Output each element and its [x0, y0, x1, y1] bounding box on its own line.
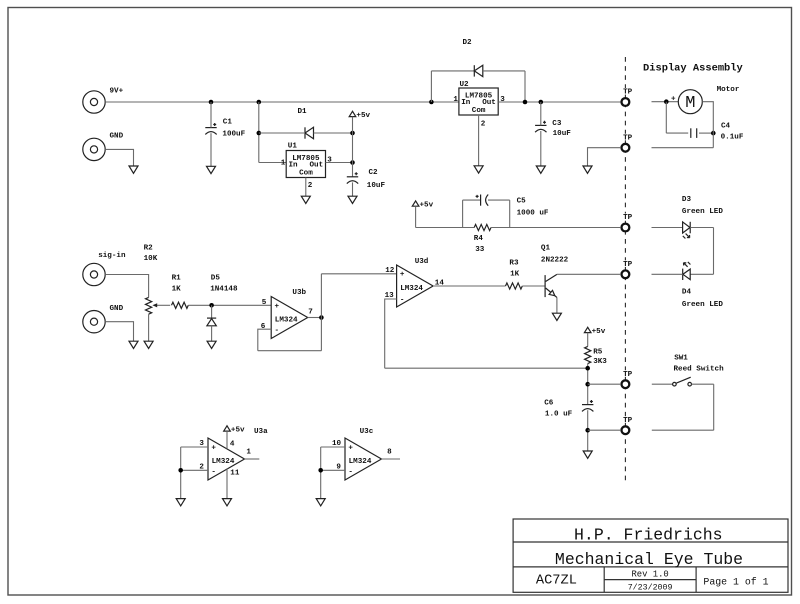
- wire +5v to R5: [587, 333, 589, 347]
- svg-text:Out: Out: [482, 99, 496, 107]
- svg-text:1K: 1K: [172, 286, 182, 294]
- svg-text:TP: TP: [623, 134, 633, 142]
- wire SW1 left: [652, 383, 673, 385]
- connector J2 GND: [83, 138, 105, 160]
- svg-text:C6: C6: [544, 400, 554, 408]
- node junction D2 right: [523, 100, 528, 105]
- svg-text:TP: TP: [623, 371, 633, 379]
- svg-text:Page 1 of 1: Page 1 of 1: [703, 577, 768, 588]
- node junction U3c in: [318, 468, 323, 473]
- wire U1 com: [305, 178, 307, 197]
- wire U3a pin11: [226, 468, 228, 498]
- wire C6 bottom: [587, 410, 589, 451]
- svg-text:Reed Switch: Reed Switch: [674, 366, 725, 374]
- svg-text:Motor: Motor: [717, 86, 740, 94]
- power +5v arrow (U3a pin4): [224, 426, 231, 431]
- svg-text:-: -: [348, 468, 353, 476]
- wire U1 out: [326, 162, 353, 164]
- wire sig-in to R2: [105, 275, 148, 298]
- wire C1 top: [210, 102, 212, 128]
- label TP3: [622, 214, 632, 223]
- svg-text:D1: D1: [298, 108, 308, 116]
- power +5v arrow (U1 out): [349, 111, 356, 116]
- capacitor C4: [691, 128, 697, 138]
- power +5v arrow (R4 rail): [412, 201, 419, 206]
- svg-text:In: In: [289, 162, 299, 170]
- svg-text:+: +: [671, 96, 676, 104]
- LED D3: [683, 222, 691, 239]
- svg-text:10uF: 10uF: [553, 130, 572, 138]
- label TP5: [622, 370, 632, 379]
- wire +5v vertical U1: [352, 117, 354, 177]
- svg-text:D3: D3: [682, 196, 692, 204]
- wire U3a output: [245, 458, 260, 460]
- svg-text:M: M: [685, 94, 695, 113]
- node junction U3b out: [319, 315, 324, 320]
- resistor R4: [474, 224, 491, 230]
- wire U3a inputs: [181, 447, 208, 499]
- svg-text:GND: GND: [110, 132, 124, 140]
- wire to TP6: [588, 429, 621, 431]
- ground U3a inputs: [176, 499, 185, 506]
- wire R2 bottom: [148, 314, 150, 341]
- wire U3c output: [382, 458, 401, 460]
- ground C3: [536, 166, 545, 173]
- wire U3c inputs: [321, 447, 345, 499]
- svg-text:Mechanical Eye Tube: Mechanical Eye Tube: [555, 550, 743, 569]
- svg-text:Out: Out: [310, 162, 324, 170]
- svg-text:+: +: [348, 444, 353, 452]
- svg-text:TP: TP: [623, 261, 633, 269]
- svg-text:sig-in: sig-in: [98, 252, 126, 260]
- svg-text:D2: D2: [463, 39, 473, 47]
- ground U3a pin11: [223, 499, 232, 506]
- wire D1 right: [314, 132, 353, 134]
- label TP4: [622, 260, 632, 269]
- ground U1 com: [301, 196, 310, 203]
- transistor Q1 2N2222: [545, 274, 557, 297]
- potentiometer R2: [146, 297, 152, 314]
- wire motor right: [702, 102, 713, 148]
- ground R2: [144, 341, 153, 348]
- node junction C1/rail: [209, 100, 214, 105]
- wire D4 left: [652, 273, 683, 275]
- svg-text:C2: C2: [369, 169, 379, 177]
- svg-text:33: 33: [475, 246, 485, 254]
- svg-text:4: 4: [230, 441, 235, 449]
- svg-text:TP: TP: [623, 214, 633, 222]
- svg-text:U1: U1: [288, 143, 298, 151]
- test point TP6: [622, 426, 630, 434]
- svg-text:1K: 1K: [510, 270, 520, 278]
- wire motor top: [652, 101, 679, 103]
- svg-text:AC7ZL: AC7ZL: [536, 574, 577, 589]
- test point TP3: [622, 224, 630, 232]
- svg-text:C1: C1: [223, 119, 233, 127]
- node junction motor left: [664, 99, 669, 104]
- svg-text:D4: D4: [682, 288, 692, 296]
- motor M1: [678, 90, 702, 114]
- node junction U1-in/rail: [257, 100, 262, 105]
- wire D4 right: [690, 273, 713, 275]
- node junction U3a in: [178, 468, 183, 473]
- svg-text:Green LED: Green LED: [682, 301, 723, 309]
- wire R4 to TP3: [491, 227, 621, 229]
- node junction C4 right: [711, 131, 716, 136]
- node junction U1 out: [350, 160, 355, 165]
- wire D1 left: [259, 132, 305, 134]
- connector J4 GND2: [83, 311, 105, 333]
- diode D2: [474, 65, 483, 76]
- ground J2: [129, 166, 138, 173]
- wire C3 bottom: [540, 131, 542, 166]
- svg-text:7: 7: [308, 308, 313, 316]
- ground D5: [207, 341, 216, 348]
- R2 wiper arrow: [152, 303, 170, 307]
- wire D5 top: [211, 305, 213, 318]
- connector J1 9V+: [83, 91, 105, 113]
- wire U3a pin4: [226, 431, 228, 449]
- resistor R5: [585, 346, 591, 363]
- svg-text:-: -: [275, 327, 280, 335]
- op-amp U3a: [208, 438, 245, 480]
- svg-text:TP: TP: [623, 89, 633, 97]
- dashed assembly boundary: [624, 57, 626, 484]
- svg-text:100uF: 100uF: [222, 130, 245, 138]
- wire D2 loop left: [431, 71, 474, 102]
- svg-text:Com: Com: [472, 107, 486, 115]
- svg-text:U3c: U3c: [360, 428, 374, 436]
- wire GND2: [105, 322, 133, 342]
- capacitor C6: [582, 400, 593, 411]
- svg-text:1000 uF: 1000 uF: [517, 210, 549, 218]
- svg-text:LM324: LM324: [212, 458, 235, 466]
- svg-text:TP: TP: [623, 417, 633, 425]
- regulator U2 LM7805: [459, 88, 498, 115]
- resistor R1: [172, 302, 189, 308]
- svg-text:U2: U2: [460, 81, 470, 89]
- wire TP2 to ground: [588, 148, 621, 166]
- wire U3d output: [433, 285, 505, 287]
- svg-text:+5v: +5v: [420, 201, 434, 209]
- svg-text:H.P. Friedrichs: H.P. Friedrichs: [574, 526, 723, 545]
- ground J4: [129, 341, 138, 348]
- wire to TP5: [588, 383, 621, 385]
- wire R1 to U3b: [188, 304, 271, 306]
- wire GND connector: [105, 149, 133, 166]
- svg-text:11: 11: [230, 470, 240, 478]
- svg-text:7/23/2009: 7/23/2009: [628, 582, 673, 592]
- node junction TP6: [585, 428, 590, 433]
- svg-text:-: -: [400, 296, 405, 304]
- svg-text:1.0 uF: 1.0 uF: [545, 410, 573, 418]
- svg-text:1: 1: [246, 449, 251, 457]
- wire +5v to R4: [416, 206, 475, 227]
- diode D5: [207, 318, 216, 326]
- label TP1: [622, 88, 632, 97]
- svg-text:SW1: SW1: [674, 354, 688, 362]
- wire D3 right loop: [690, 228, 713, 275]
- ground TP2: [583, 166, 592, 173]
- svg-text:C4: C4: [721, 123, 731, 131]
- svg-text:+5v: +5v: [592, 328, 606, 336]
- svg-text:12: 12: [385, 267, 395, 275]
- svg-text:Green LED: Green LED: [682, 208, 723, 216]
- wire U3b out to U3d: [321, 274, 396, 318]
- power +5v arrow (R5): [584, 327, 591, 332]
- svg-text:1: 1: [281, 159, 286, 167]
- connector J3 sig-in: [83, 263, 105, 285]
- svg-text:R3: R3: [509, 259, 519, 267]
- wire Q1 emitter: [556, 297, 558, 313]
- wire U3b output: [308, 317, 322, 319]
- svg-text:1: 1: [453, 96, 458, 104]
- svg-text:0.1uF: 0.1uF: [721, 133, 744, 141]
- node junction U3d fb: [585, 366, 590, 371]
- svg-text:10uF: 10uF: [367, 182, 386, 190]
- svg-text:Display Assembly: Display Assembly: [643, 63, 744, 75]
- svg-text:U3b: U3b: [292, 289, 306, 297]
- svg-text:+: +: [275, 303, 280, 311]
- svg-text:+5v: +5v: [356, 112, 370, 120]
- svg-text:3: 3: [327, 156, 332, 164]
- svg-text:R5: R5: [593, 349, 603, 357]
- svg-text:3K3: 3K3: [593, 358, 607, 366]
- wire C4 right: [699, 132, 713, 134]
- svg-text:+5v: +5v: [231, 426, 245, 434]
- svg-text:-: -: [211, 468, 216, 476]
- wire U3d feedback: [385, 299, 588, 368]
- test point TP2: [622, 144, 630, 152]
- wire SW1 loop: [652, 384, 714, 430]
- svg-text:9V+: 9V+: [110, 88, 124, 96]
- resistor R3: [506, 283, 523, 289]
- wire U2 com: [478, 115, 480, 166]
- svg-text:C5: C5: [517, 197, 527, 205]
- capacitor C3: [535, 121, 546, 132]
- svg-text:10K: 10K: [144, 255, 158, 263]
- svg-text:+: +: [211, 444, 216, 452]
- title block frame: [513, 519, 788, 592]
- svg-text:C3: C3: [552, 120, 562, 128]
- svg-text:LM324: LM324: [400, 285, 423, 293]
- svg-text:2: 2: [481, 120, 486, 128]
- node junction D1 right: [350, 131, 355, 136]
- wire R3 to Q1: [522, 285, 545, 287]
- wire motor bottom rail: [652, 147, 714, 149]
- ground C2: [348, 196, 357, 203]
- svg-text:LM324: LM324: [349, 458, 372, 466]
- svg-text:R1: R1: [172, 274, 182, 282]
- LED D4: [683, 262, 691, 280]
- svg-text:D5: D5: [211, 274, 221, 282]
- svg-text:R4: R4: [474, 235, 484, 243]
- svg-text:R2: R2: [144, 244, 154, 252]
- op-amp U3c: [345, 438, 382, 480]
- node junction D2 left: [429, 100, 434, 105]
- ground C6: [583, 451, 592, 458]
- wire C5 loop: [463, 200, 510, 227]
- diode D1: [305, 127, 314, 138]
- ground C1: [207, 166, 216, 173]
- wire C3 top: [540, 102, 542, 125]
- test point TP1: [622, 98, 630, 106]
- capacitor C5: [476, 195, 489, 206]
- svg-text:3: 3: [500, 96, 505, 104]
- svg-text:2N2222: 2N2222: [541, 256, 569, 264]
- test point TP5: [622, 380, 630, 388]
- ground Q1: [552, 313, 561, 320]
- wire D3 left: [652, 227, 683, 229]
- op-amp U3d: [397, 265, 434, 307]
- wire R5 to C6: [587, 364, 589, 405]
- wire motor left drop: [666, 102, 688, 133]
- svg-text:U3a: U3a: [254, 428, 268, 436]
- wire D5 bottom: [211, 326, 213, 341]
- node junction D5: [209, 303, 214, 308]
- svg-text:U3d: U3d: [415, 258, 429, 266]
- ground U2 com: [474, 166, 483, 173]
- op-amp U3b: [271, 297, 308, 339]
- test point TP4: [622, 270, 630, 278]
- svg-text:1N4148: 1N4148: [210, 286, 238, 294]
- wire C1 bottom: [210, 133, 212, 166]
- svg-text:+: +: [400, 271, 405, 279]
- label TP6: [622, 416, 632, 425]
- regulator U1 LM7805: [286, 151, 325, 178]
- label TP2: [622, 134, 632, 143]
- wire D2 loop right: [483, 71, 525, 102]
- node junction TP5: [585, 382, 590, 387]
- wire U2 out rail: [498, 101, 621, 103]
- ground U3c inputs: [316, 499, 325, 506]
- wire C2 bottom: [352, 182, 354, 196]
- capacitor C1: [205, 123, 216, 134]
- node junction D1 left: [257, 131, 262, 136]
- svg-text:GND: GND: [110, 305, 124, 313]
- svg-text:Q1: Q1: [541, 244, 551, 252]
- wire 9V rail: [105, 101, 459, 103]
- wire U3b feedback: [258, 318, 322, 351]
- svg-text:In: In: [461, 99, 471, 107]
- svg-text:5: 5: [262, 299, 267, 307]
- wire Q1 collector: [557, 273, 621, 275]
- svg-text:LM324: LM324: [275, 317, 298, 325]
- switch SW1 reed: [673, 377, 692, 386]
- wire U1 input branch: [259, 102, 286, 163]
- svg-text:8: 8: [387, 449, 392, 457]
- node junction C3/rail: [539, 100, 544, 105]
- capacitor C2: [347, 172, 358, 183]
- svg-text:Rev 1.0: Rev 1.0: [631, 570, 668, 580]
- svg-text:2: 2: [308, 182, 313, 190]
- svg-text:Com: Com: [299, 170, 313, 178]
